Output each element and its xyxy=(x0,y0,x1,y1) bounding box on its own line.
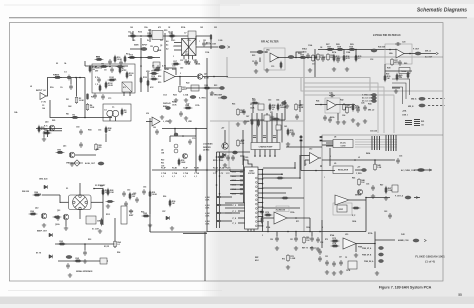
svg-text:SYSTEM: SYSTEM xyxy=(248,173,255,175)
wire xyxy=(284,100,286,120)
capacitor C81 xyxy=(226,155,230,161)
svg-text:R41A: R41A xyxy=(330,116,335,119)
IC pin bubble xyxy=(255,216,257,218)
transistor Q5 xyxy=(357,189,362,194)
net capsule V_SNS xyxy=(372,93,377,96)
wire pin stub xyxy=(230,193,240,195)
wire stub xyxy=(132,31,134,41)
wire to switch xyxy=(60,201,69,203)
resistor R34 xyxy=(343,54,345,62)
diode CR4 xyxy=(49,233,52,237)
wire xyxy=(336,104,355,106)
resistor R96 xyxy=(169,199,171,207)
resistor R8 xyxy=(121,108,123,116)
op-amp U10A xyxy=(310,153,320,164)
ground xyxy=(316,247,320,251)
node junction xyxy=(219,193,221,195)
node junction xyxy=(320,165,322,167)
node pin xyxy=(262,225,264,227)
svg-text:1.5K: 1.5K xyxy=(349,49,354,51)
op-amp U13A xyxy=(274,212,287,224)
svg-text:4.7K: 4.7K xyxy=(72,116,77,119)
wire xyxy=(179,77,181,86)
svg-text:FL3C: FL3C xyxy=(226,168,231,170)
wire arrow xyxy=(429,169,431,171)
crystal Y1 xyxy=(153,62,160,68)
svg-text:PWM_UP_A: PWM_UP_A xyxy=(362,247,372,250)
wire pin stub xyxy=(258,187,263,189)
net capsule A_TRIG xyxy=(190,95,196,98)
svg-text:C48: C48 xyxy=(246,120,249,123)
resistor R43 xyxy=(352,103,354,111)
svg-text:C44: C44 xyxy=(276,99,279,102)
transistor Q1 xyxy=(153,46,159,52)
svg-text:R56: R56 xyxy=(232,104,235,106)
ground xyxy=(286,265,290,269)
wire xyxy=(128,35,210,37)
charger section outline xyxy=(322,135,443,232)
svg-text:(1 of 4): (1 of 4) xyxy=(425,260,434,264)
wire xyxy=(221,196,232,198)
resistor R12 xyxy=(210,34,212,39)
svg-text:R93: R93 xyxy=(88,239,91,241)
svg-text:47PF: 47PF xyxy=(75,259,80,262)
svg-text:MAIN: MAIN xyxy=(134,44,139,47)
capacitor C50 xyxy=(275,236,279,242)
wire inverting input xyxy=(301,155,310,157)
svg-text:R60: R60 xyxy=(300,105,303,107)
ground xyxy=(42,223,46,227)
node junction xyxy=(182,135,184,137)
reference VR1 xyxy=(337,205,347,212)
node junction xyxy=(79,77,81,79)
ground xyxy=(371,194,375,198)
filter FL1 xyxy=(152,31,163,40)
resistor R125 xyxy=(251,118,253,126)
net capsule D_BIAS xyxy=(166,106,171,109)
resistor R122 xyxy=(116,65,125,67)
svg-text:R42: R42 xyxy=(340,99,343,102)
svg-text:1000PF: 1000PF xyxy=(280,107,288,109)
transistor Q10 xyxy=(49,125,55,131)
svg-text:AC_IN_CON: AC_IN_CON xyxy=(206,43,217,46)
bus filter capacitor C8 xyxy=(393,135,395,151)
pin series resistor R6 xyxy=(240,193,244,195)
resistor R32 xyxy=(327,53,330,61)
wire stub xyxy=(84,244,86,250)
svg-text:1.5K: 1.5K xyxy=(110,192,115,194)
svg-text:SERIAL INTERFACE: SERIAL INTERFACE xyxy=(76,270,93,273)
svg-text:RN1: RN1 xyxy=(421,121,424,123)
net capsule MID_B xyxy=(419,104,426,107)
svg-text:1.00K: 1.00K xyxy=(30,213,36,215)
wire stub xyxy=(169,136,171,142)
svg-text:FL3A: FL3A xyxy=(219,167,224,170)
resistor R5 xyxy=(71,116,80,118)
svg-text:473: 473 xyxy=(158,26,161,29)
wire xyxy=(174,49,182,51)
photodiode CR6 xyxy=(100,258,107,264)
svg-text:FL3B: FL3B xyxy=(213,168,218,170)
capacitor C10 xyxy=(202,41,206,47)
svg-text:MM_LO: MM_LO xyxy=(368,110,375,112)
ground xyxy=(332,67,336,71)
bus filter capacitor C7 xyxy=(390,135,392,151)
node pump pin xyxy=(264,155,266,157)
svg-text:BEEP_OUT: BEEP_OUT xyxy=(37,231,48,233)
diode CR2 xyxy=(223,153,226,157)
svg-text:Q2: Q2 xyxy=(204,74,206,76)
svg-text:C61: C61 xyxy=(98,130,101,132)
wire pin stub xyxy=(238,210,245,212)
wire pin stub xyxy=(238,222,245,224)
wire pin stub xyxy=(230,175,240,177)
svg-text:R38: R38 xyxy=(387,68,390,70)
ground xyxy=(270,115,274,119)
node junction xyxy=(343,104,345,106)
net capsule F_OUT xyxy=(415,52,421,55)
svg-text:C51A: C51A xyxy=(290,211,295,214)
wire xyxy=(128,57,160,59)
wire pump pin xyxy=(264,150,266,157)
ground xyxy=(345,67,349,71)
wire stub xyxy=(84,61,86,66)
ground xyxy=(64,226,68,230)
resistor R57 xyxy=(251,102,260,104)
svg-text:100K: 100K xyxy=(90,107,95,109)
svg-text:C24: C24 xyxy=(342,114,345,117)
resistor R7 xyxy=(119,66,121,74)
resistor R100 xyxy=(126,71,128,79)
regulator U9 xyxy=(333,166,353,174)
bus filter capacitor C9 xyxy=(395,135,397,151)
node junction xyxy=(295,57,297,59)
svg-text:RFI AC FILTER: RFI AC FILTER xyxy=(261,40,279,44)
resistor R114 xyxy=(276,177,285,179)
svg-text:4.7K: 4.7K xyxy=(59,242,64,245)
svg-text:C47: C47 xyxy=(246,115,249,118)
node junction xyxy=(277,57,279,59)
svg-text:R130: R130 xyxy=(129,211,133,213)
pin series resistor R5 xyxy=(240,188,244,190)
svg-text:C55: C55 xyxy=(325,256,328,258)
ground xyxy=(184,98,188,102)
ground xyxy=(254,69,258,73)
svg-text:1000PF: 1000PF xyxy=(327,49,335,51)
net capsule ACAL_OUT xyxy=(98,162,104,165)
wire xyxy=(183,233,207,235)
svg-text:R86 10K: R86 10K xyxy=(22,191,30,193)
svg-text:Q6: Q6 xyxy=(161,150,163,152)
svg-text:C43: C43 xyxy=(268,99,271,102)
svg-text:C3: C3 xyxy=(42,105,44,107)
node junction xyxy=(195,128,197,130)
capacitor C36 xyxy=(371,185,375,191)
resistor R104 xyxy=(146,56,155,58)
wire sense feedback xyxy=(365,197,367,232)
pin series resistor R3 xyxy=(240,180,244,182)
capacitor C35 xyxy=(396,158,400,164)
wire pin stub xyxy=(258,211,263,213)
ground xyxy=(375,271,379,275)
svg-text:C31: C31 xyxy=(180,60,183,62)
ground xyxy=(98,229,102,233)
page header rule xyxy=(9,17,467,19)
node pin xyxy=(262,216,264,218)
capacitor C78 xyxy=(328,117,332,123)
wire pin stub xyxy=(230,184,240,186)
wire elbow xyxy=(392,87,403,104)
node junction xyxy=(409,53,411,55)
capacitor C16 xyxy=(306,53,310,59)
svg-text:ACAL_OUT: ACAL_OUT xyxy=(85,162,96,165)
wire from switch xyxy=(91,201,103,203)
op-amp U16A xyxy=(152,117,160,126)
ground xyxy=(342,120,346,124)
transistor Q13 xyxy=(63,214,69,220)
wire pump column xyxy=(266,113,268,143)
wire xyxy=(76,78,78,97)
wire stub xyxy=(171,31,173,41)
capacitor C53 xyxy=(316,237,320,243)
net capsule AC_SIG xyxy=(257,50,263,53)
IC pin bubble xyxy=(255,221,257,223)
wire pin stub xyxy=(258,197,263,199)
node junction xyxy=(309,231,311,233)
svg-text:FL1: FL1 xyxy=(160,40,163,42)
resistor R23 xyxy=(203,87,212,89)
wire pin stub xyxy=(230,188,240,190)
wire xyxy=(414,197,420,199)
svg-text:DC-DC: DC-DC xyxy=(340,143,347,145)
resistor R87 xyxy=(102,188,104,196)
node junction xyxy=(109,66,111,68)
svg-text:103: 103 xyxy=(421,125,424,127)
resistor R2 xyxy=(75,96,78,104)
IC pin bubble xyxy=(255,208,257,210)
svg-text:R120: R120 xyxy=(143,77,147,79)
ground xyxy=(286,142,290,146)
resistor R42 xyxy=(343,103,346,111)
wire xyxy=(322,144,333,146)
svg-text:R51: R51 xyxy=(161,163,164,165)
input divider block outline xyxy=(92,64,135,93)
svg-text:C37A: C37A xyxy=(195,104,200,107)
wire xyxy=(311,232,313,237)
capacitor C26 xyxy=(363,105,367,111)
svg-text:104: 104 xyxy=(42,107,45,110)
wire stub xyxy=(294,162,296,168)
pin series resistor R9 xyxy=(216,212,221,214)
svg-text:33.2K: 33.2K xyxy=(337,49,343,51)
resistor R88 xyxy=(107,188,109,196)
svg-text:R36 10K: R36 10K xyxy=(378,47,386,49)
resistor R94 xyxy=(114,240,117,248)
node pin xyxy=(262,211,264,213)
svg-text:R81: R81 xyxy=(52,120,55,122)
svg-text:C15: C15 xyxy=(271,66,274,68)
svg-text:IR_RX: IR_RX xyxy=(104,246,110,248)
svg-text:Y2: Y2 xyxy=(345,257,347,259)
wire xyxy=(276,232,278,237)
wire xyxy=(84,78,86,118)
ground xyxy=(106,204,110,208)
wire xyxy=(295,232,297,237)
wire xyxy=(140,62,142,66)
svg-text:R71: R71 xyxy=(296,221,299,223)
wire pin stub xyxy=(230,179,240,181)
node junction xyxy=(216,184,218,186)
net capsule MAIN_INPUT xyxy=(141,47,147,50)
resistor R91 xyxy=(149,190,151,198)
rail bus wire xyxy=(355,146,397,148)
digital bus wire xyxy=(210,120,304,122)
IC pin bubble xyxy=(255,203,257,205)
resistor R58 xyxy=(269,103,271,111)
wire pump column xyxy=(256,113,258,143)
wire xyxy=(170,135,196,137)
ground xyxy=(351,118,355,122)
ground xyxy=(308,68,312,72)
svg-text:PWM_DN_A: PWM_DN_A xyxy=(364,260,374,263)
capacitor C57 xyxy=(339,260,343,266)
node pin xyxy=(262,202,264,204)
wire xyxy=(366,197,390,199)
shield bus wire B xyxy=(301,78,370,92)
wire supply rail A xyxy=(300,135,302,171)
svg-text:50K_A: 50K_A xyxy=(425,50,431,53)
wire elbow xyxy=(392,79,410,95)
node pin xyxy=(262,178,264,180)
wire stub xyxy=(304,160,306,166)
svg-text:GRD_A00: GRD_A00 xyxy=(39,178,47,181)
svg-text:DISPLAY: DISPLAY xyxy=(163,102,171,105)
node junction xyxy=(216,156,218,158)
net capsule TRIG2 xyxy=(220,86,225,89)
svg-text:220: 220 xyxy=(44,129,47,131)
svg-text:SHLD: SHLD xyxy=(302,49,308,51)
svg-text:MID_B: MID_B xyxy=(408,106,414,108)
wire shield tie xyxy=(296,52,304,58)
connector hatch xyxy=(300,137,303,141)
wire to comparator xyxy=(299,155,301,178)
capacitor C86 xyxy=(83,250,87,256)
resistor R80 xyxy=(38,125,40,133)
wire arrow xyxy=(416,196,418,198)
resistor R1 xyxy=(53,76,62,78)
wire xyxy=(221,204,232,206)
capacitor C42 xyxy=(242,109,246,115)
node junction xyxy=(149,35,151,37)
svg-text:4.7K: 4.7K xyxy=(151,72,156,75)
wire xyxy=(36,128,62,130)
wire pump column xyxy=(281,113,283,143)
svg-text:R22: R22 xyxy=(186,83,189,85)
wire IC bottom stub xyxy=(253,229,255,232)
relay K1 xyxy=(122,82,132,92)
svg-text:Q12: Q12 xyxy=(35,208,38,210)
wire xyxy=(147,72,149,92)
resistor network RN1 xyxy=(405,121,412,125)
svg-text:C36: C36 xyxy=(366,184,369,186)
svg-text:C25: C25 xyxy=(356,107,359,109)
pin series resistor R7 xyxy=(216,196,221,198)
net capsule IR_TX xyxy=(66,255,72,258)
svg-text:1.00K: 1.00K xyxy=(96,59,102,61)
pump capacitor C11 xyxy=(263,136,266,138)
node junction xyxy=(206,169,208,171)
wire xyxy=(404,53,436,55)
wire xyxy=(224,130,226,143)
svg-text:A0: A0 xyxy=(166,40,168,43)
resistor R54 xyxy=(237,139,240,147)
rotary switch S1 xyxy=(69,195,92,210)
wire xyxy=(85,65,128,67)
wire arrow xyxy=(228,46,230,48)
wire xyxy=(252,104,254,114)
wire analog common rail xyxy=(207,231,366,233)
svg-text:47PF: 47PF xyxy=(122,69,127,72)
svg-text:Q11: Q11 xyxy=(63,146,66,148)
supply bus wire xyxy=(304,87,384,133)
wire xyxy=(195,129,197,173)
svg-text:1:4: 1:4 xyxy=(104,109,106,112)
wire xyxy=(174,45,182,47)
wire pin stub xyxy=(258,169,263,171)
resistor R123 xyxy=(99,84,101,92)
ground xyxy=(394,89,398,93)
reference U4 xyxy=(191,85,199,91)
resistor R13 xyxy=(128,56,137,58)
wire xyxy=(109,117,111,121)
svg-text:AMBID_CON: AMBID_CON xyxy=(398,239,409,242)
wire stub xyxy=(343,50,345,55)
resistor R3 xyxy=(86,94,88,100)
svg-text:R19: R19 xyxy=(158,82,161,84)
rail bus wire xyxy=(355,141,397,143)
IC pin bubble xyxy=(255,177,257,179)
resistor R101 xyxy=(108,79,117,81)
resistor R92 xyxy=(142,215,151,217)
svg-text:C37: C37 xyxy=(186,104,189,106)
svg-text:R94: R94 xyxy=(117,251,120,254)
svg-text:100: 100 xyxy=(130,27,133,29)
wire xyxy=(217,151,251,153)
digital bus wire xyxy=(228,121,230,168)
pump capacitor C12 xyxy=(273,136,276,138)
wire xyxy=(263,217,274,219)
net capsule AC_IN_CON xyxy=(219,45,226,48)
wire stub xyxy=(259,58,261,63)
wire pump rail xyxy=(250,119,285,121)
net capsule +3V xyxy=(362,168,367,171)
pump capacitor C10 xyxy=(253,136,256,138)
wire data bus xyxy=(219,152,221,228)
svg-text:10K: 10K xyxy=(68,106,72,108)
svg-text:1000PF: 1000PF xyxy=(34,194,42,196)
node pin xyxy=(262,192,264,194)
node junction xyxy=(47,130,49,132)
resistor R11 xyxy=(168,35,177,37)
svg-text:S1: S1 xyxy=(66,188,68,190)
node junction xyxy=(365,197,367,199)
capacitor C12 xyxy=(184,59,188,65)
charge pump U11 xyxy=(251,143,280,150)
svg-text:C41: C41 xyxy=(284,125,287,128)
rail bus wire xyxy=(355,144,397,146)
wire relay pin xyxy=(129,92,131,96)
IC pin bubble xyxy=(255,181,257,183)
